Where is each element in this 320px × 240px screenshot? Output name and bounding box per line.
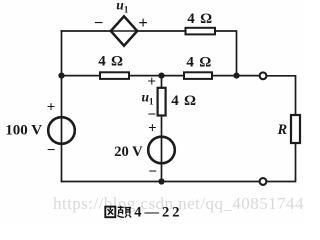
wire middle: resistor to right node	[212, 75, 237, 77]
voltage source 20V (circle)	[148, 137, 175, 164]
resistor 4ohm vertical (u1)	[158, 88, 166, 116]
svg-text:4 Ω: 4 Ω	[187, 11, 213, 27]
svg-text:−: −	[148, 164, 157, 180]
svg-text:+: +	[148, 74, 157, 90]
resistor R	[291, 115, 300, 143]
resistor 4ohm middle-right	[184, 72, 212, 79]
caption character tu (figure)	[105, 207, 115, 218]
wire bottom horizontal	[62, 181, 260, 183]
resistor 4ohm top	[186, 28, 216, 35]
caption character ti (title)	[117, 206, 131, 218]
node junction middle branch top	[158, 73, 164, 79]
svg-text:100 V: 100 V	[5, 123, 42, 139]
wire middle: left node to resistor	[62, 75, 101, 77]
svg-text:4—22: 4—22	[134, 205, 182, 221]
svg-text:20 V: 20 V	[114, 144, 143, 160]
node junction left (A)	[58, 73, 64, 79]
wire terminal to top-right corner down to R	[266, 76, 295, 115]
wire middle branch vertical (node down through resistor and 20V source)	[161, 76, 163, 182]
svg-text:4 Ω: 4 Ω	[171, 93, 197, 109]
svg-text:4 Ω: 4 Ω	[186, 55, 212, 71]
svg-text:+: +	[148, 121, 157, 137]
svg-text:R: R	[277, 122, 288, 138]
wire left vertical (top wire corner down through 100V source to bottom corner)	[61, 31, 63, 182]
terminal (open) bottom right	[260, 178, 267, 185]
dependent source U1 (diamond)	[111, 16, 137, 45]
svg-text:u1: u1	[142, 90, 155, 107]
resistor 4ohm middle-left	[100, 72, 129, 79]
svg-text:u1: u1	[116, 0, 129, 14]
terminal (open) top right	[260, 72, 267, 79]
wire top horizontal left segment	[62, 30, 112, 32]
svg-text:+: +	[138, 13, 147, 32]
wire top resistor to right corner, down to node	[215, 31, 237, 76]
svg-text:4 Ω: 4 Ω	[98, 54, 124, 70]
wire node to open terminal	[237, 75, 260, 77]
wire middle: resistor to middle node	[129, 75, 184, 77]
svg-text:+: +	[47, 99, 56, 115]
node junction right	[233, 73, 239, 79]
svg-text:−: −	[94, 13, 103, 32]
svg-text:−: −	[47, 142, 56, 158]
voltage source 100V (circle)	[48, 117, 75, 144]
node junction bottom (20V source to bottom wire)	[158, 178, 164, 184]
wire diamond to top resistor	[137, 30, 186, 32]
wire R to bottom-right corner	[266, 143, 295, 182]
